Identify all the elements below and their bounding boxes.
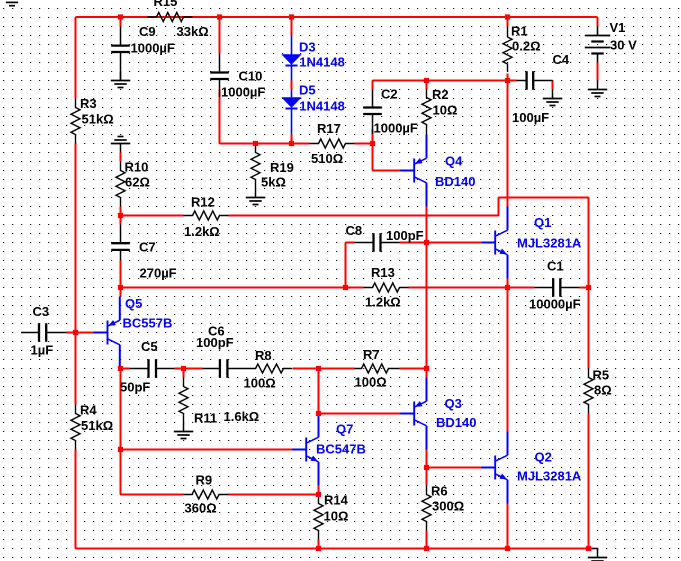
- svg-text:R5: R5: [593, 367, 610, 382]
- svg-text:R17: R17: [317, 121, 341, 136]
- svg-text:R9: R9: [196, 472, 213, 487]
- svg-text:360Ω: 360Ω: [185, 500, 217, 515]
- svg-text:R6: R6: [431, 483, 448, 498]
- svg-text:R3: R3: [80, 96, 97, 111]
- svg-text:1000µF: 1000µF: [374, 120, 418, 135]
- svg-text:510Ω: 510Ω: [311, 151, 343, 166]
- svg-text:R4: R4: [80, 402, 97, 417]
- svg-text:C8: C8: [346, 223, 363, 238]
- svg-text:51kΩ: 51kΩ: [81, 418, 113, 433]
- svg-text:R2: R2: [432, 87, 449, 102]
- svg-text:BC547B: BC547B: [316, 441, 366, 456]
- svg-text:BC557B: BC557B: [123, 315, 173, 330]
- svg-text:R7: R7: [363, 347, 380, 362]
- svg-text:R8: R8: [255, 348, 272, 363]
- svg-text:1N4148: 1N4148: [299, 98, 345, 113]
- svg-text:BD140: BD140: [435, 174, 475, 189]
- svg-text:MJL3281A: MJL3281A: [517, 235, 582, 250]
- svg-text:1000µF: 1000µF: [131, 40, 175, 55]
- svg-text:R1: R1: [511, 23, 528, 38]
- svg-text:R10: R10: [125, 159, 149, 174]
- svg-text:1µF: 1µF: [31, 342, 54, 357]
- svg-text:10Ω: 10Ω: [433, 102, 458, 117]
- svg-text:10000µF: 10000µF: [529, 296, 581, 311]
- svg-text:C5: C5: [141, 339, 158, 354]
- svg-text:270µF: 270µF: [140, 265, 177, 280]
- svg-text:8Ω: 8Ω: [594, 382, 612, 397]
- svg-text:100pF: 100pF: [196, 335, 234, 350]
- svg-text:V1: V1: [610, 20, 626, 35]
- svg-text:Q1: Q1: [534, 215, 551, 230]
- svg-text:1000µF: 1000µF: [221, 84, 265, 99]
- svg-text:R11: R11: [194, 410, 217, 425]
- svg-text:1N4148: 1N4148: [299, 54, 345, 69]
- svg-text:300Ω: 300Ω: [432, 498, 464, 513]
- svg-text:C9: C9: [139, 24, 156, 39]
- svg-text:62Ω: 62Ω: [125, 174, 150, 189]
- svg-text:R19: R19: [270, 160, 294, 175]
- svg-text:5kΩ: 5kΩ: [261, 174, 286, 189]
- svg-text:D3: D3: [299, 39, 316, 54]
- svg-text:BD140: BD140: [436, 415, 476, 430]
- svg-text:C10: C10: [239, 68, 263, 83]
- svg-text:Q4: Q4: [445, 153, 463, 168]
- svg-text:C2: C2: [381, 86, 398, 101]
- svg-text:R15: R15: [154, 0, 178, 9]
- svg-text:C4: C4: [553, 52, 570, 67]
- svg-text:R13: R13: [371, 265, 395, 280]
- svg-text:C3: C3: [33, 304, 50, 319]
- svg-text:100Ω: 100Ω: [244, 375, 276, 390]
- svg-text:1.2kΩ: 1.2kΩ: [365, 294, 401, 309]
- svg-text:0.2Ω: 0.2Ω: [512, 38, 541, 53]
- svg-text:Q7: Q7: [336, 421, 353, 436]
- svg-text:33kΩ: 33kΩ: [177, 24, 209, 39]
- svg-text:100pF: 100pF: [386, 228, 424, 243]
- svg-text:R12: R12: [191, 194, 215, 209]
- svg-text:R14: R14: [324, 492, 349, 507]
- svg-text:30 V: 30 V: [610, 37, 637, 52]
- svg-text:100Ω: 100Ω: [355, 374, 387, 389]
- svg-text:C7: C7: [139, 239, 156, 254]
- svg-text:51kΩ: 51kΩ: [82, 111, 114, 126]
- svg-text:MJL3281A: MJL3281A: [517, 468, 582, 483]
- svg-text:Q2: Q2: [535, 449, 552, 464]
- svg-text:10Ω: 10Ω: [324, 508, 349, 523]
- svg-text:1.2kΩ: 1.2kΩ: [184, 224, 220, 239]
- svg-text:D5: D5: [299, 82, 316, 97]
- svg-text:Q3: Q3: [445, 396, 462, 411]
- svg-text:100µF: 100µF: [512, 110, 549, 125]
- svg-text:Q5: Q5: [125, 296, 142, 311]
- svg-text:1.6kΩ: 1.6kΩ: [224, 409, 260, 424]
- svg-text:50pF: 50pF: [120, 379, 150, 394]
- svg-text:C1: C1: [547, 258, 564, 273]
